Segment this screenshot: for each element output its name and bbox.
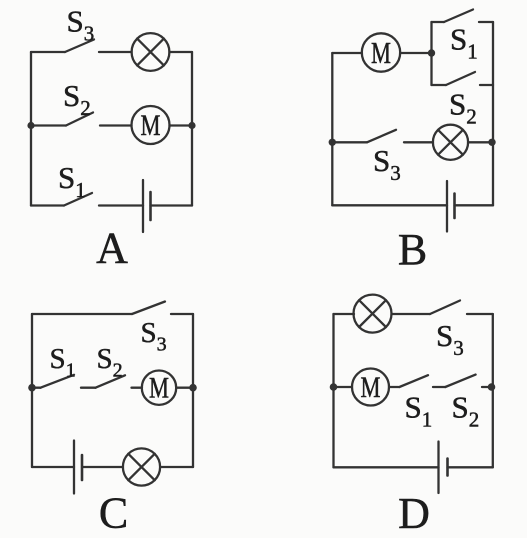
svg-text:S3: S3 [373, 143, 401, 185]
label S3 (A) [67, 4, 95, 46]
svg-text:M: M [141, 109, 161, 142]
switch S2 (A) blade [66, 113, 93, 126]
node A left junction [27, 122, 34, 129]
wire D right rail [492, 314, 494, 467]
wire C bottom-right segment [160, 466, 193, 468]
wire B right rail [492, 22, 494, 205]
wire C mid contact segment [132, 387, 143, 389]
node B parallel junction [428, 49, 435, 56]
svg-text:S1: S1 [450, 22, 478, 64]
label S1 (B) [450, 22, 478, 64]
switch S3 (C) blade [132, 302, 165, 315]
svg-text:S2: S2 [449, 87, 477, 129]
motor M (C) [142, 371, 176, 405]
label S2 (B) [449, 87, 477, 129]
wire D between-switch segment [433, 386, 445, 388]
switch S2 (B) blade [446, 72, 475, 85]
label B [398, 225, 427, 274]
wire B mid-right segment [468, 141, 492, 143]
wire A mid-right segment [170, 124, 193, 126]
wire A top-left segment [31, 51, 65, 53]
lamp (C) [123, 448, 160, 485]
svg-text:M: M [371, 35, 391, 70]
lamp (D) [354, 295, 392, 333]
label S2 (D) [452, 390, 480, 432]
wire D lamp to switch segment [392, 313, 431, 315]
svg-text:C: C [99, 489, 128, 538]
wire D motor to switch segment [389, 386, 399, 388]
svg-text:M: M [361, 371, 381, 404]
wire B S2 branch lead [432, 84, 447, 86]
wire B S1 contact segment [479, 21, 493, 23]
battery (C) [74, 441, 82, 494]
wire A mid-left segment [31, 124, 66, 126]
wire C battery to lamp segment [82, 466, 123, 468]
wire C mid between-switch segment [81, 387, 96, 389]
wire C top contact segment [171, 313, 193, 315]
svg-text:S1: S1 [50, 343, 76, 382]
wire A top contact segment [99, 51, 132, 53]
svg-text:S3: S3 [436, 318, 464, 360]
wire C top-left segment [32, 313, 132, 315]
label C [99, 489, 128, 538]
svg-text:A: A [96, 224, 128, 273]
label D [398, 489, 430, 538]
label S3 (D) [436, 318, 464, 360]
wire A bottom-left segment [31, 204, 64, 206]
switch S3 (D) blade [430, 301, 460, 315]
motor M (A) [132, 106, 170, 144]
label S1 (D) [405, 390, 433, 432]
switch S3 (B) blade [367, 130, 396, 143]
wire B mid contact segment [404, 141, 433, 143]
battery (D) [439, 442, 448, 494]
wire A bottom-right segment [151, 204, 193, 206]
svg-text:S3: S3 [67, 4, 95, 46]
wire A bottom contact segment [99, 204, 143, 206]
node C mid-left junction [28, 384, 36, 392]
battery (A) [143, 180, 151, 232]
switch S3 (A) blade [65, 40, 94, 53]
label S3 (C) [141, 317, 167, 356]
switch S1 (A) blade [64, 193, 92, 206]
wire D left rail [332, 314, 334, 467]
switch S2 (C) blade [96, 375, 126, 387]
node B mid-right junction [488, 139, 495, 146]
lamp (B) [433, 125, 468, 160]
wire A top-right segment [169, 51, 192, 53]
wire D mid lead [334, 386, 353, 388]
switch S1 (B) blade [444, 10, 473, 23]
label S1 (C) [50, 343, 76, 382]
wire B mid-left segment [332, 141, 367, 143]
wire C mid lead [32, 387, 41, 389]
label S2 (C) [97, 343, 123, 382]
node D mid-right junction [488, 383, 496, 391]
svg-text:D: D [398, 489, 430, 538]
node B mid-left junction [329, 139, 336, 146]
wire B junction vertical [430, 22, 432, 85]
svg-text:S1: S1 [405, 390, 433, 432]
motor M (D) [352, 369, 389, 406]
svg-text:S2: S2 [452, 390, 480, 432]
wire A left rail [30, 52, 32, 206]
wire B S1 branch lead [432, 21, 445, 23]
label A [96, 224, 128, 273]
svg-text:S2: S2 [97, 343, 123, 382]
node D mid-left junction [330, 383, 338, 391]
wire C left rail [31, 314, 33, 467]
label S3 (B) [373, 143, 401, 185]
wire D mid contact segment [482, 386, 493, 388]
wire C bottom-left segment [32, 466, 74, 468]
wire C mid-right segment [176, 387, 193, 389]
wire B motor to junction [400, 52, 432, 54]
wire D bottom-right segment [448, 466, 493, 468]
node C mid-right junction [189, 384, 197, 392]
svg-text:B: B [398, 225, 427, 274]
label S1 (A) [58, 160, 86, 202]
svg-text:S3: S3 [141, 317, 167, 356]
wire B S2 contact segment [480, 84, 493, 86]
wire D top contact segment [467, 313, 493, 315]
wire D top-left segment [334, 313, 355, 315]
motor M (B) [362, 33, 400, 71]
wire C right rail [192, 314, 194, 467]
svg-text:M: M [149, 372, 169, 405]
label S2 (A) [63, 78, 91, 120]
switch S1 (D) blade [399, 375, 428, 387]
wire B left rail [331, 53, 333, 205]
wire A right rail [191, 52, 193, 206]
battery (B) [447, 181, 455, 232]
svg-text:S2: S2 [63, 78, 91, 120]
wire D bottom-left segment [334, 466, 439, 468]
wire B bottom-right segment [455, 204, 494, 206]
switch S2 (D) blade [445, 375, 475, 387]
wire B top-left segment [332, 52, 362, 54]
node A right junction [188, 122, 195, 129]
lamp (A) [132, 33, 170, 71]
switch S1 (C) blade [41, 375, 75, 388]
svg-text:S1: S1 [58, 160, 86, 202]
wire A mid contact segment [100, 124, 132, 126]
wire B bottom-left segment [332, 204, 447, 206]
